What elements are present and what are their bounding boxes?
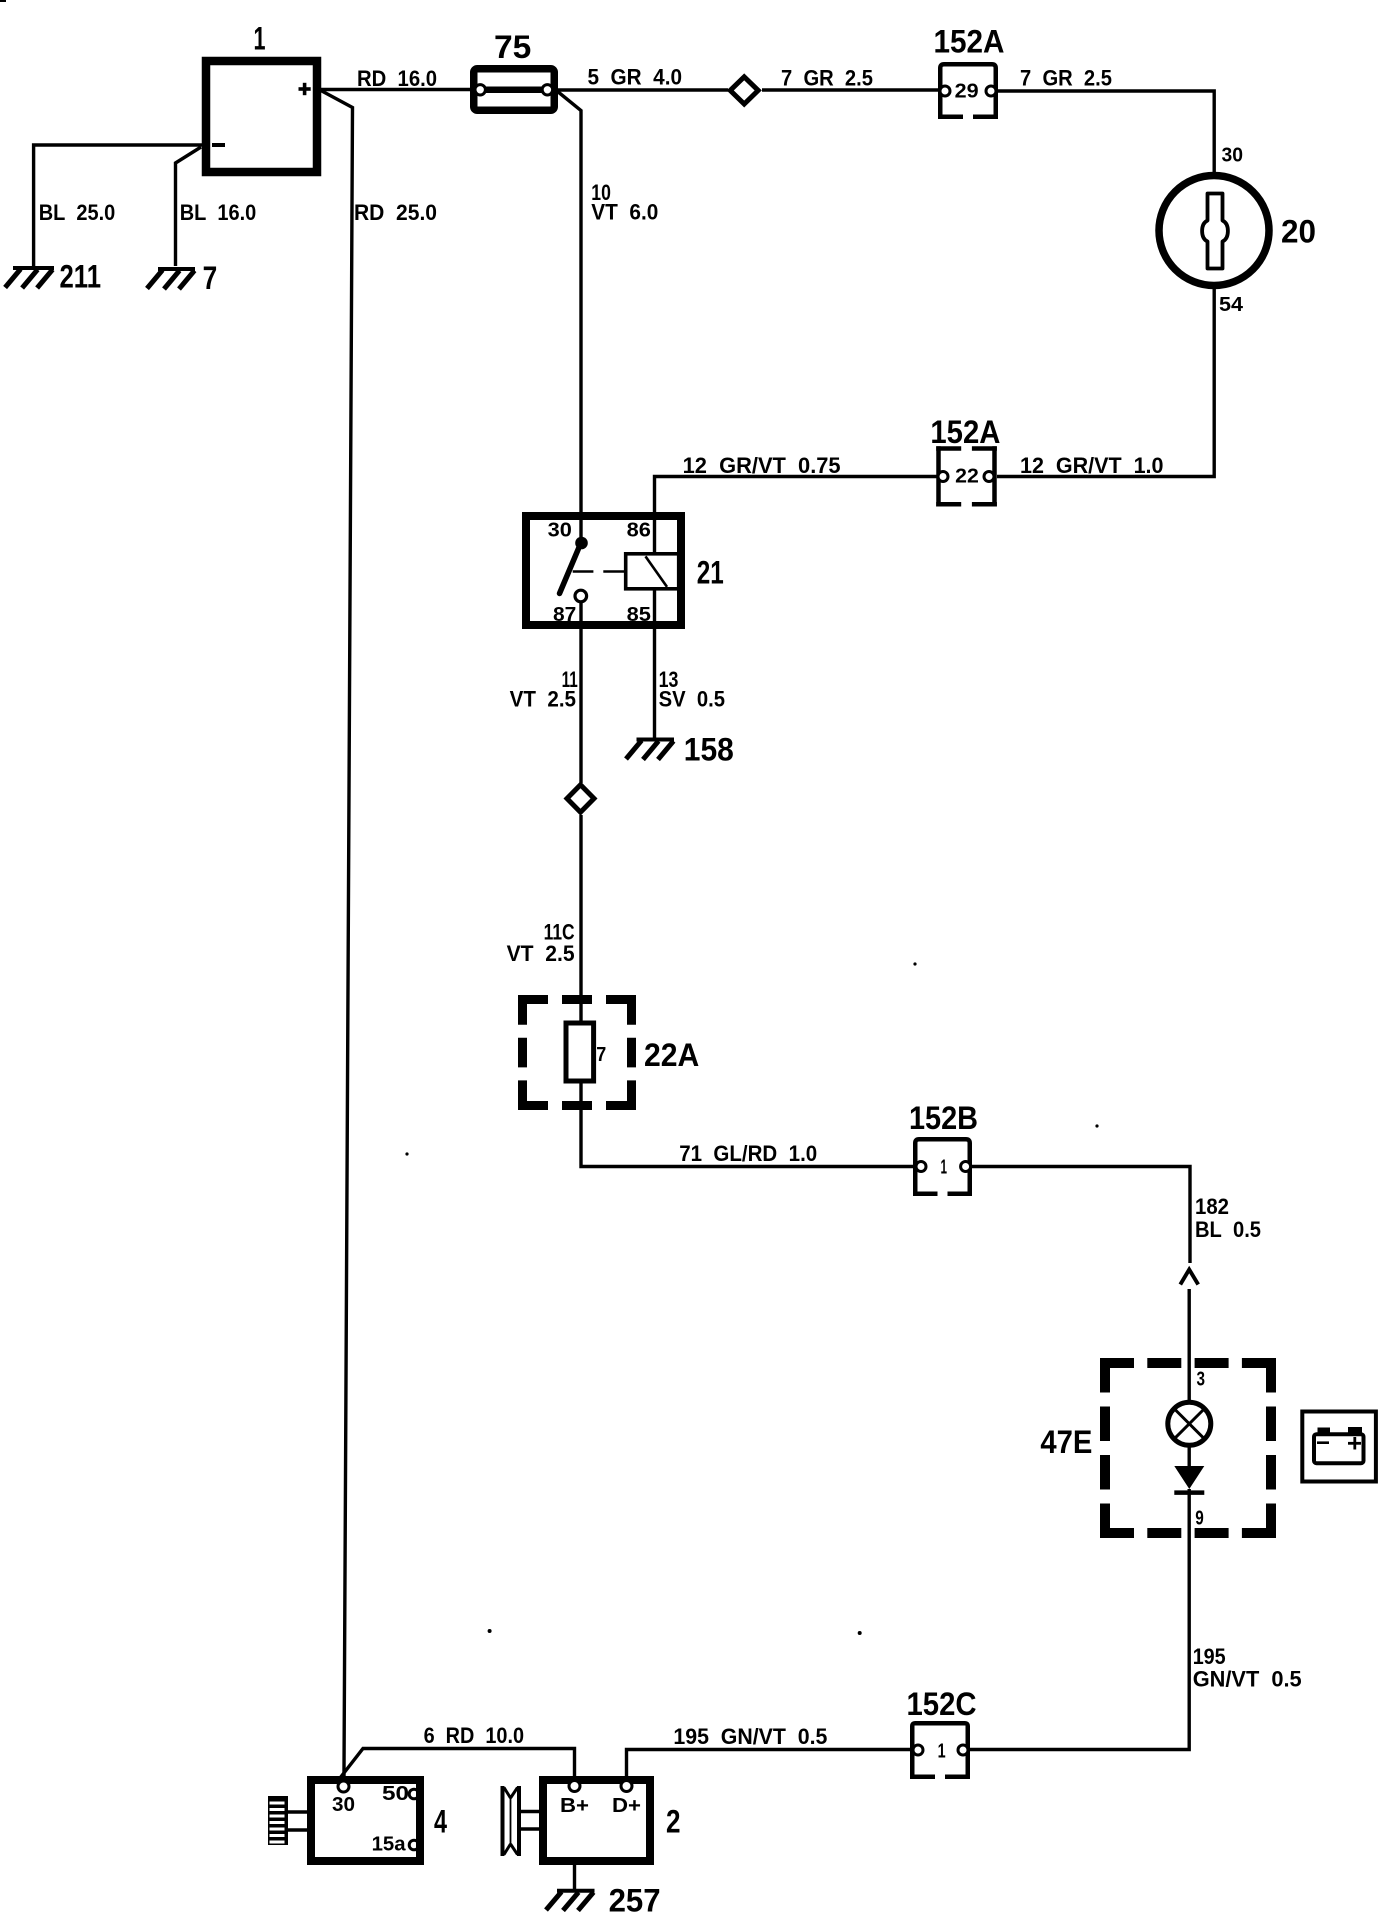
svg-text:D+: D+ <box>612 1795 641 1817</box>
connector 152A pin contact left <box>938 472 948 482</box>
svg-text:47E: 47E <box>1040 1424 1092 1460</box>
svg-text:GN/VT 0.5: GN/VT 0.5 <box>1193 1667 1302 1692</box>
relay actuation dashed link <box>573 570 624 572</box>
ground 257 <box>546 1883 661 1912</box>
connector 152A pin contact right <box>984 472 994 482</box>
svg-text:87: 87 <box>553 604 576 626</box>
svg-text:195 GN/VT 0.5: 195 GN/VT 0.5 <box>673 1724 827 1749</box>
fuse 22A element <box>566 1023 594 1081</box>
lamp/diode unit 47E dashed box <box>1040 1358 1276 1538</box>
svg-text:1: 1 <box>938 1741 946 1763</box>
ground 158 <box>626 732 734 768</box>
wire 13 SV 0.5 relay 85 to ground 158 <box>655 589 726 738</box>
svg-text:RD 25.0: RD 25.0 <box>354 200 437 225</box>
svg-text:12 GR/VT 1.0: 12 GR/VT 1.0 <box>1020 453 1164 478</box>
svg-text:7 GR 2.5: 7 GR 2.5 <box>1020 66 1112 91</box>
svg-text:7: 7 <box>596 1044 606 1066</box>
generator 2 <box>503 1780 681 1861</box>
svg-text:211: 211 <box>60 259 102 295</box>
battery 1 box <box>206 61 317 172</box>
svg-text:15a: 15a <box>372 1834 407 1856</box>
wire 7 GR 2.5 connector to ignition switch pin 30 <box>996 66 1243 175</box>
svg-text:1: 1 <box>254 21 266 57</box>
connector 152A pin contact right <box>986 86 996 96</box>
relay switch arm <box>560 545 581 594</box>
lamp 47E <box>1168 1402 1211 1445</box>
svg-text:21: 21 <box>697 554 724 590</box>
corner mark <box>0 0 6 2</box>
svg-text:7: 7 <box>203 260 218 296</box>
wire 12 GR/VT 1.0 ignition 54 to connector 152A pin 22 <box>997 287 1214 478</box>
starter bolt terminal <box>268 1796 288 1845</box>
svg-text:BL 0.5: BL 0.5 <box>1195 1217 1261 1242</box>
svg-text:195: 195 <box>1193 1644 1226 1669</box>
svg-text:152C: 152C <box>907 1686 977 1722</box>
wire 7 GR 2.5 diamond to connector 152A <box>762 66 940 91</box>
svg-text:30: 30 <box>548 520 572 542</box>
svg-text:30: 30 <box>1222 145 1244 167</box>
wire 195 GN/VT 0.5 connector 152C to generator D+ <box>627 1724 913 1780</box>
pin B+ contact <box>569 1781 580 1792</box>
svg-text:9: 9 <box>1195 1508 1204 1530</box>
fuse 75 body <box>474 69 555 111</box>
wire 71 GL/RD 1.0 fuse 22A to connector 152B <box>581 1081 915 1167</box>
svg-text:5 GR 4.0: 5 GR 4.0 <box>588 65 683 90</box>
wire 12 GR/VT 0.75 connector to relay pin 86 <box>655 453 939 556</box>
svg-text:158: 158 <box>684 732 734 768</box>
wire RD 16.0 battery+ to fuse 75 <box>319 66 472 91</box>
connector 152C pin contact left <box>913 1745 923 1755</box>
pin 30 contact <box>338 1781 349 1792</box>
svg-text:VT 2.5: VT 2.5 <box>507 941 575 966</box>
relay contact 30 dot <box>575 537 588 550</box>
starter 4 box <box>311 1780 420 1861</box>
battery minus terminal <box>212 143 225 147</box>
svg-text:152B: 152B <box>909 1100 978 1136</box>
wire generator to ground 257 <box>573 1863 576 1889</box>
connector 152B pin contact left <box>916 1162 926 1172</box>
wire BL 16.0 battery- to ground 7 <box>176 147 257 266</box>
svg-text:75: 75 <box>494 29 531 65</box>
wire 11C VT 2.5 diamond to fuse 22A <box>507 815 581 1025</box>
pin D+ contact <box>621 1781 632 1792</box>
svg-text:4: 4 <box>434 1804 447 1840</box>
battery plus terminal <box>299 87 311 91</box>
svg-text:182: 182 <box>1195 1194 1229 1219</box>
relay coil <box>626 554 679 589</box>
svg-text:50: 50 <box>382 1783 409 1805</box>
svg-text:B+: B+ <box>560 1795 589 1817</box>
fuse 75 right pin <box>542 85 552 95</box>
svg-text:1: 1 <box>941 1157 948 1179</box>
svg-text:257: 257 <box>609 1883 661 1912</box>
svg-text:12 GR/VT 0.75: 12 GR/VT 0.75 <box>683 453 841 478</box>
connector 152A pin 29 <box>934 24 1005 117</box>
svg-text:152A: 152A <box>930 414 1000 450</box>
svg-text:3: 3 <box>1197 1369 1206 1391</box>
wire coil feed <box>653 554 656 589</box>
svg-text:2: 2 <box>666 1804 681 1840</box>
ground 7 <box>147 260 217 296</box>
connector 152C pin contact right <box>958 1745 968 1755</box>
wire 182 BL 0.5 connector 152B to 47E <box>971 1167 1261 1401</box>
svg-text:VT 6.0: VT 6.0 <box>591 200 658 225</box>
inline connector chevron <box>1180 1270 1198 1285</box>
wire BL 25.0 battery- to ground 211 <box>34 145 203 266</box>
svg-text:71 GL/RD 1.0: 71 GL/RD 1.0 <box>679 1141 817 1166</box>
wire 5 GR 4.0 fuse to diamond <box>558 65 728 91</box>
svg-text:22A: 22A <box>644 1037 699 1073</box>
splice diamond 2 <box>567 785 594 812</box>
connector 152B pin contact right <box>961 1162 971 1172</box>
relay contact 87 <box>575 590 587 602</box>
svg-text:22: 22 <box>955 466 979 488</box>
diode 47E <box>1174 1445 1204 1493</box>
pin 15a contact <box>409 1840 419 1850</box>
fuse 22A <box>518 995 699 1110</box>
svg-text:85: 85 <box>627 604 651 626</box>
battery feed icon <box>1302 1412 1376 1482</box>
generator 2 box <box>543 1780 650 1861</box>
connector 152A pin contact left <box>940 86 950 96</box>
ignition switch 20 <box>1159 176 1316 317</box>
wire RD 25.0 battery+ down to starter <box>320 90 437 1781</box>
svg-text:BL 16.0: BL 16.0 <box>180 200 257 225</box>
wire 10 VT 6.0 fuse to relay pin 30 <box>557 91 658 545</box>
wire 195 GN/VT 0.5 diode to connector 152C <box>968 1489 1302 1750</box>
svg-text:RD 16.0: RD 16.0 <box>357 66 437 91</box>
svg-text:VT 2.5: VT 2.5 <box>510 687 576 712</box>
splice diamond <box>730 77 758 104</box>
svg-text:SV 0.5: SV 0.5 <box>659 687 725 712</box>
wire 11 VT 2.5 relay 87 to splice diamond <box>510 602 581 783</box>
ground 211 <box>5 259 101 295</box>
pin 50 contact <box>409 1789 419 1799</box>
svg-text:BL 25.0: BL 25.0 <box>39 200 116 225</box>
fuse 75 left pin <box>475 85 485 95</box>
noise dots <box>405 962 1098 1635</box>
battery 1 <box>206 21 317 173</box>
connector 152C <box>907 1686 977 1777</box>
svg-text:30: 30 <box>332 1794 355 1816</box>
relay 21 <box>526 516 724 626</box>
svg-text:152A: 152A <box>934 24 1005 60</box>
svg-text:54: 54 <box>1219 294 1244 316</box>
starter motor 4 <box>268 1780 447 1861</box>
wire 6 RD 10.0 starter 30 to generator B+ <box>340 1723 575 1780</box>
connector 152B <box>909 1100 978 1194</box>
fuse 75 <box>474 29 555 110</box>
svg-text:20: 20 <box>1281 214 1316 250</box>
connector 152A pin 22 <box>930 414 1000 506</box>
svg-text:29: 29 <box>955 81 979 103</box>
fuse 75 element <box>480 87 547 94</box>
svg-text:86: 86 <box>627 520 651 542</box>
generator pulley <box>501 1786 505 1856</box>
ignition key symbol <box>1202 194 1228 269</box>
svg-text:7 GR 2.5: 7 GR 2.5 <box>781 66 873 91</box>
svg-text:6 RD 10.0: 6 RD 10.0 <box>424 1723 524 1748</box>
